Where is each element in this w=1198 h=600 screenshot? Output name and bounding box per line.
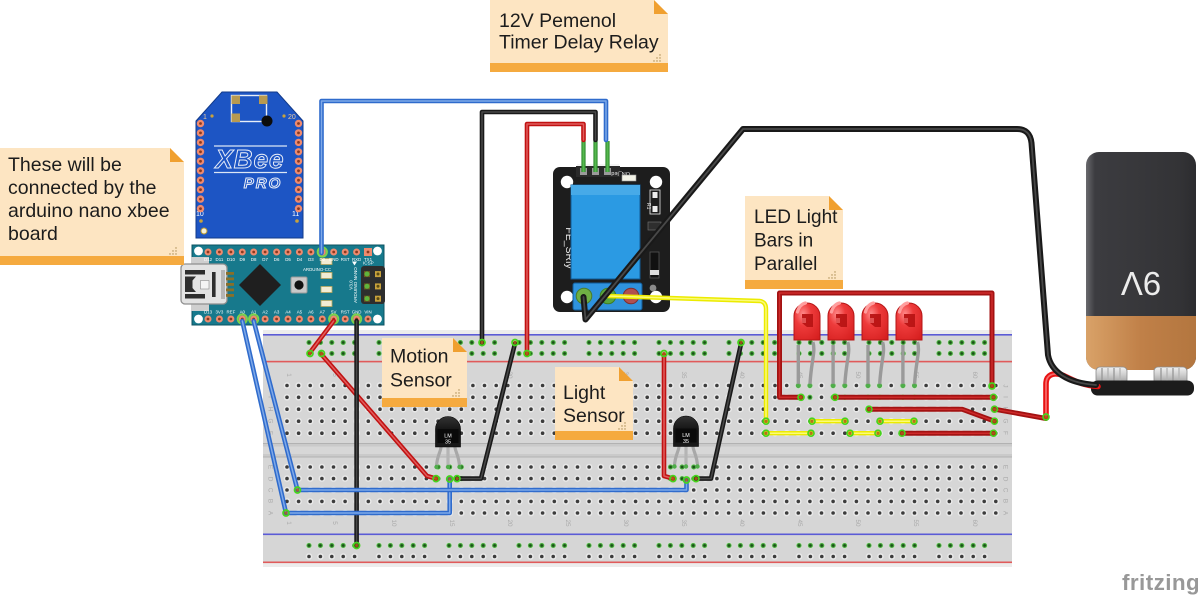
svg-text:F: F	[1001, 431, 1008, 435]
svg-text:25: 25	[564, 519, 571, 527]
svg-text:D4: D4	[297, 257, 303, 262]
wire: row H to battery + (dark red)	[995, 409, 1047, 418]
svg-text:D7: D7	[262, 257, 268, 262]
LED4	[896, 303, 922, 388]
svg-text:A: A	[266, 511, 273, 516]
wire: LED supply frame (dark red)	[780, 293, 993, 397]
wire: battery negative lead to relay COM (black)	[584, 129, 1097, 385]
svg-text:10: 10	[390, 519, 397, 527]
svg-text:ARDUINO NANO: ARDUINO NANO	[353, 267, 358, 303]
wire: Arduino D2 to relay pin S (blue)	[322, 101, 607, 253]
svg-text:RXD: RXD	[352, 257, 361, 262]
svg-text:50: 50	[854, 371, 861, 379]
yellow jumper row F 1	[766, 431, 811, 435]
wire: Arduino A0 to motion sensor column (blue)	[242, 321, 449, 513]
connected pad rings	[318, 247, 327, 256]
svg-text:REF: REF	[227, 310, 236, 315]
svg-text:A7: A7	[320, 310, 326, 315]
svg-text:D9: D9	[239, 257, 245, 262]
svg-text:20: 20	[506, 519, 513, 527]
svg-text:E: E	[1001, 465, 1008, 469]
svg-text:D8: D8	[251, 257, 257, 262]
svg-text:A2: A2	[262, 310, 268, 315]
svg-text:arduino nano xbee: arduino nano xbee	[8, 200, 170, 222]
svg-text:40: 40	[738, 371, 745, 379]
ATmega chip	[239, 264, 281, 306]
svg-text:board: board	[8, 223, 58, 245]
svg-text:D12: D12	[204, 257, 213, 262]
svg-text:20: 20	[288, 114, 296, 121]
wire: relay NO terminal to LED rail (yellow)	[608, 296, 766, 421]
svg-text:D11: D11	[216, 257, 224, 262]
reset button	[291, 277, 307, 293]
svg-text:C: C	[1001, 488, 1008, 493]
note: Motion Sensor	[382, 338, 467, 407]
svg-text:D2: D2	[319, 257, 325, 262]
breadboard top power rails	[306, 339, 988, 357]
svg-text:D: D	[1001, 477, 1008, 482]
wire: row I bus (dark red)	[835, 395, 994, 400]
svg-text:35: 35	[680, 519, 687, 527]
svg-text:A: A	[1001, 511, 1008, 516]
svg-text:D10: D10	[227, 257, 236, 262]
wire: Arduino A1 to light sensor column (blue)	[254, 321, 687, 490]
svg-text:PRO: PRO	[244, 175, 283, 192]
svg-text:VIN: VIN	[364, 310, 371, 315]
svg-text:Parallel: Parallel	[754, 254, 817, 275]
XBee pads	[197, 120, 302, 213]
wire: battery positive lead (red)	[1046, 374, 1098, 417]
svg-text:3V3: 3V3	[215, 310, 223, 315]
wire: motion sensor to top rail (black)	[457, 344, 515, 479]
svg-text:RST: RST	[341, 310, 350, 315]
ICSP header	[361, 261, 385, 305]
Arduino Nano pads	[205, 248, 373, 323]
relay module FE_SRly	[553, 165, 670, 312]
svg-text:B: B	[266, 499, 273, 503]
yellow jumper row G 2	[880, 419, 914, 423]
wire end connection rings	[480, 341, 483, 344]
svg-text:Light: Light	[563, 382, 606, 404]
svg-text:G: G	[1001, 419, 1008, 424]
svg-text:40: 40	[738, 519, 745, 527]
svg-text:GND: GND	[329, 257, 339, 262]
wire: top red rail to light sensor (red)	[664, 355, 673, 479]
svg-text:V3.0: V3.0	[349, 280, 354, 290]
svg-text:Sensor: Sensor	[563, 405, 625, 427]
svg-text:15: 15	[448, 519, 455, 527]
status LEDs TX RX PWR L	[321, 259, 332, 265]
svg-text:D13: D13	[204, 310, 213, 315]
svg-text:H: H	[266, 407, 273, 412]
note: LED Light Bars in Parallel	[745, 196, 843, 289]
yellow jumper row G 1	[812, 419, 845, 423]
breadboard bottom power rails	[306, 542, 988, 560]
svg-text:9V: 9V	[1121, 265, 1161, 302]
wire: Arduino GND to bottom power rail (black)	[354, 321, 359, 546]
XBee PRO module U2	[196, 92, 303, 238]
motion sensor transistor Q1 (LM35)	[434, 417, 461, 470]
svg-text:I: I	[1001, 396, 1008, 398]
svg-text:D6: D6	[274, 257, 280, 262]
breadboard labels	[266, 371, 1008, 527]
svg-text:55: 55	[912, 519, 919, 527]
9V battery	[1086, 152, 1196, 396]
svg-text:These will be: These will be	[8, 154, 122, 176]
svg-text:5: 5	[331, 521, 338, 525]
light sensor transistor Q2 (LM35)	[672, 416, 699, 469]
svg-text:35: 35	[445, 440, 451, 446]
svg-text:60: 60	[971, 371, 978, 379]
svg-text:fritzing: fritzing	[1122, 570, 1198, 595]
svg-text:1: 1	[285, 521, 292, 525]
svg-text:ARDUINO-CC: ARDUINO-CC	[303, 267, 331, 272]
svg-text:45: 45	[796, 519, 803, 527]
wire: Arduino 5V to top red rail (red)	[310, 321, 334, 353]
svg-text:12V Pemenol: 12V Pemenol	[499, 10, 616, 32]
svg-text:E: E	[266, 465, 273, 469]
wire: top red rail to motion sensor Vout row (red)	[322, 355, 437, 479]
svg-text:D3: D3	[308, 257, 314, 262]
wire: light sensor to top rail (black)	[696, 344, 741, 479]
svg-text:D: D	[266, 477, 273, 482]
LED1	[794, 303, 820, 388]
breadboard main grid holes	[284, 382, 999, 516]
svg-text:1: 1	[285, 373, 292, 377]
svg-text:A5: A5	[297, 310, 303, 315]
svg-text:A6: A6	[308, 310, 314, 315]
wire: top power rail to relay pin left (red)	[527, 124, 584, 354]
USB connector	[181, 257, 234, 311]
note: 12V Pemenol Timer Delay Relay	[490, 0, 668, 72]
svg-text:LED Light: LED Light	[754, 207, 838, 228]
wire: row F bus (dark red)	[902, 431, 994, 436]
svg-text:RST: RST	[341, 257, 350, 262]
svg-text:35: 35	[680, 371, 687, 379]
svg-text:30: 30	[622, 519, 629, 527]
wire: top power rail to relay pin middle (black)	[482, 112, 596, 344]
svg-text:35: 35	[683, 439, 689, 445]
svg-text:C: C	[266, 488, 273, 493]
svg-text:D5: D5	[285, 257, 291, 262]
svg-text:A3: A3	[274, 310, 280, 315]
svg-text:TX1: TX1	[364, 257, 373, 262]
svg-text:50: 50	[854, 519, 861, 527]
svg-text:connected by the: connected by the	[8, 177, 157, 199]
yellow jumper row F 2	[850, 431, 878, 435]
svg-text:1: 1	[203, 114, 207, 121]
svg-text:Bars in: Bars in	[754, 231, 813, 252]
note: Light Sensor	[555, 367, 633, 440]
breadboard	[263, 330, 1012, 567]
svg-text:Motion: Motion	[390, 346, 449, 368]
svg-text:60: 60	[971, 519, 978, 527]
svg-text:J: J	[1001, 384, 1008, 387]
svg-text:R1: R1	[645, 203, 651, 210]
LED3	[862, 303, 888, 388]
wire: row H bus (dark red)	[869, 409, 995, 421]
svg-text:XBee: XBee	[213, 144, 284, 174]
svg-text:Timer Delay Relay: Timer Delay Relay	[499, 32, 659, 54]
relay input pin legs	[581, 141, 585, 172]
note: These will be connected by the arduino nano xbee board	[0, 148, 184, 265]
LED2	[828, 303, 854, 388]
svg-text:Sensor: Sensor	[390, 370, 452, 392]
svg-text:A4: A4	[285, 310, 291, 315]
svg-text:B: B	[1001, 499, 1008, 503]
